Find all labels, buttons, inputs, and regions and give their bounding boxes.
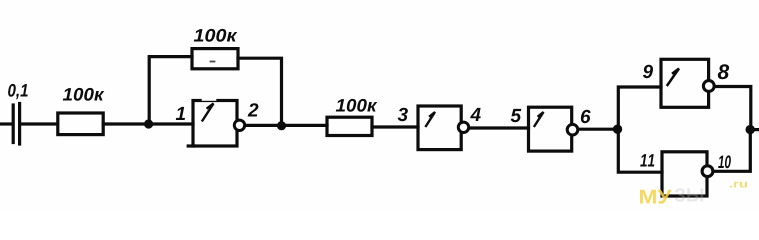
label R3 value 100к	[336, 99, 378, 112]
node B junction dot	[277, 121, 286, 130]
pin 4 label	[470, 108, 481, 121]
resistor R2 feedback body	[192, 49, 238, 69]
label R2 value 100к	[194, 29, 238, 42]
wire input lead	[0, 122, 11, 125]
wire U3 output to split node	[579, 128, 618, 131]
pin 2 label	[248, 103, 259, 116]
wire feedback left riser	[149, 57, 192, 124]
inverter U2 box	[418, 106, 461, 150]
pin 10 label	[718, 155, 731, 168]
pin 8 label	[718, 64, 729, 79]
pin 6 label	[581, 110, 591, 124]
inverter U3 gate symbol 1	[535, 112, 544, 126]
resistor R1 body	[58, 113, 103, 135]
capacitor C1 plates	[13, 104, 19, 145]
inverter U4 box	[661, 59, 709, 107]
label R1 value 100к	[63, 88, 105, 101]
wire U2 output to U3 input	[470, 126, 529, 129]
wire feedback right drop	[238, 58, 282, 126]
watermark .ru	[730, 182, 747, 188]
inverter U2 gate symbol 1	[426, 112, 435, 126]
inverter U2 output bubble pin 4	[458, 122, 468, 132]
wire U4 output to merge	[715, 87, 751, 126]
inverter U3 output bubble pin 6	[567, 124, 578, 135]
inverter U4 gate symbol 1	[668, 69, 680, 86]
node D merge junction dot	[746, 125, 755, 134]
inverter U1 output bubble pin 2	[234, 120, 244, 130]
inverter U4 output bubble pin 8	[703, 81, 714, 92]
inverter U3 box	[529, 107, 572, 151]
watermark faint letters	[674, 188, 703, 202]
pin 1 label	[176, 107, 185, 120]
inverter U1 gate symbol 1	[203, 104, 214, 121]
wire U1 output to R3	[246, 124, 328, 127]
node A junction dot	[144, 119, 153, 128]
node C split junction dot	[613, 125, 622, 134]
inverter U5 output bubble pin 10	[702, 166, 713, 177]
watermark МУ	[640, 190, 672, 204]
wire output stub	[751, 128, 759, 131]
wire R3 to U2 input	[372, 125, 418, 128]
pin 9 label	[643, 65, 653, 79]
pin 3 label	[398, 108, 408, 122]
wire capacitor to R1	[22, 122, 58, 125]
wire branch up to U4	[618, 87, 661, 129]
inverter U1 box	[188, 99, 237, 146]
pin 11 label	[640, 154, 654, 166]
resistor R3 body	[327, 117, 372, 135]
wire U5 output to merge	[714, 133, 751, 171]
pin 5 label	[511, 109, 522, 122]
inverter U5 box	[662, 152, 707, 196]
wire branch down to U5	[618, 130, 662, 173]
wire R1 to U1 input	[103, 122, 193, 125]
label C1 value 0,1	[8, 84, 28, 99]
